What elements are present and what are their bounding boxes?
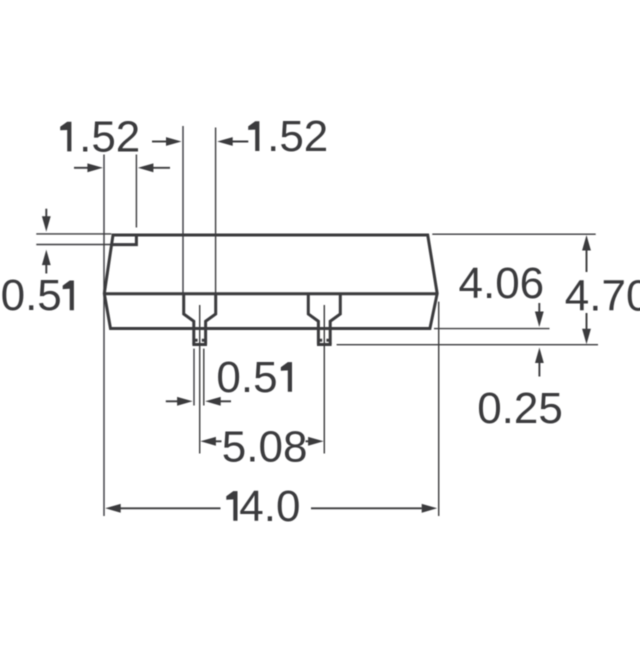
svg-text:.52: .52 [79,112,140,161]
dim 14.0 right arrow [311,504,437,513]
dim 0.51 lead width right arrow [205,397,231,406]
dim 0.51 lid thickness up arrow [42,250,51,274]
svg-text:0.5: 0.5 [1,271,62,320]
dim 4.06 down arrow [535,303,544,327]
label 1.52 (lid offset) [60,122,71,152]
extension line lid seam (0.51 left) [36,244,111,246]
extension line body top right (4.70) [432,233,595,235]
dim 14.0 left arrow [105,504,220,513]
svg-text:0.25: 0.25 [477,384,563,433]
label 14.0 (body width) [226,491,237,521]
extension line lid top (0.51 left) [36,233,111,235]
extension line notch x=136.4 [135,155,137,228]
dim 0.51 lid thickness down arrow [42,209,51,232]
svg-text:4.06: 4.06 [459,259,545,308]
svg-text:4.0: 4.0 [239,482,300,531]
svg-text:.52: .52 [267,112,328,161]
extension line body right edge x=438.7 (14.0) [438,302,440,516]
pin 2 (right lead) [308,294,340,345]
lid step notch top-left [112,236,137,245]
svg-text:0.5: 0.5 [216,353,277,402]
extension line lead tip plane (4.70 / 0.25) [337,344,598,346]
dim 5.08 right arrow [306,437,324,446]
extension line pin2 center (5.08) [323,305,325,454]
package mid (seating) line [104,292,437,295]
extension line pin1 right edge x=215.6 [215,128,217,293]
dim 1.52 (lid offset) leader left arrow [74,163,103,172]
dim 1.52 (lid offset) leader right arrow [138,163,170,172]
extension line pin1 left edge x=183 [182,126,184,293]
dim 5.08 left arrow [200,437,221,446]
dim 4.70 up arrow [582,235,591,272]
dim 1.52 (pin width at body) leader right arrow [217,137,248,146]
dim 4.70 down arrow [582,313,591,344]
extension line pin1 center (5.08) [199,305,201,454]
svg-text:5.08: 5.08 [222,423,308,472]
pin 1 (left lead) [184,294,216,345]
extension line body bottom right (4.06) [434,328,550,330]
extension line pin1 lead right (0.51 width) [203,349,205,406]
dim 1.52 (pin width at body) leader left arrow [152,137,182,146]
package body outline [104,235,437,329]
dim 0.25 up arrow [535,348,544,377]
extension line pin1 lead left (0.51 width) [193,349,195,406]
label 1.52 (pin edge) [248,121,259,151]
svg-text:4.70: 4.70 [565,271,640,320]
dim 0.51 lead width left arrow [166,397,193,406]
extension line left body edge x=104 [103,155,105,517]
